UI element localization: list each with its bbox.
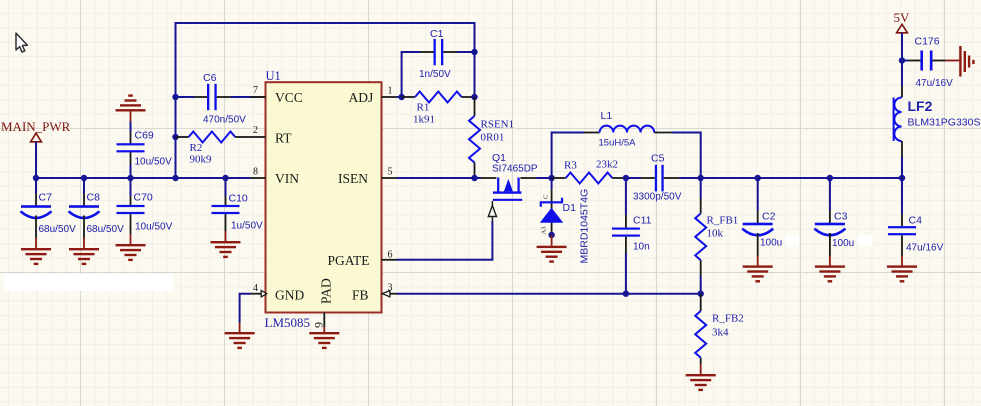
svg-text:R_FB1: R_FB1 xyxy=(707,215,739,227)
node C5 right output xyxy=(698,175,704,181)
pin 4 GND with input arrow xyxy=(251,293,266,295)
svg-text:1u/50V: 1u/50V xyxy=(231,221,263,232)
node D1 anode xyxy=(548,232,554,238)
wire top loop xyxy=(176,23,475,178)
capacitor C4 xyxy=(888,178,916,265)
svg-text:PAD: PAD xyxy=(319,278,334,304)
wire ISEN to Q1 xyxy=(397,177,481,179)
svg-text:D1: D1 xyxy=(563,202,577,214)
node C11 bottom xyxy=(623,291,629,297)
svg-text:100u: 100u xyxy=(760,238,782,249)
resistor RSEN1 xyxy=(469,97,480,178)
white strip lower left xyxy=(4,274,174,291)
svg-text:MBRD1045T4G: MBRD1045T4G xyxy=(579,189,591,264)
node 5V junction xyxy=(899,57,905,63)
svg-text:RT: RT xyxy=(275,131,292,146)
svg-text:1k91: 1k91 xyxy=(413,114,435,126)
svg-text:VCC: VCC xyxy=(275,90,303,105)
pin 5 ISEN xyxy=(382,177,398,179)
svg-text:Q1: Q1 xyxy=(492,152,506,164)
transistor Q1 SI7465DP xyxy=(481,178,536,222)
node C6 tap xyxy=(172,94,178,100)
wire VIN rail xyxy=(36,177,251,179)
svg-text:3300p/50V: 3300p/50V xyxy=(633,192,682,203)
resistor R2 xyxy=(176,132,251,143)
capacitor C70 xyxy=(117,178,145,244)
ground under C2 xyxy=(743,265,773,282)
ground above C69 (flipped) xyxy=(116,94,146,111)
svg-text:RSEN1: RSEN1 xyxy=(481,119,515,131)
inductor L1 xyxy=(552,126,701,178)
capacitor C1 xyxy=(402,39,475,97)
svg-text:10n: 10n xyxy=(633,242,650,253)
resistor R_FB1 xyxy=(695,178,706,294)
svg-text:23k2: 23k2 xyxy=(596,159,618,171)
ground at PAD pin xyxy=(323,327,325,332)
node FB divider xyxy=(698,291,704,297)
capacitor C3 xyxy=(814,178,845,265)
node C2 tap xyxy=(755,175,761,181)
inductor LF2 xyxy=(894,61,902,179)
svg-text:ADJ: ADJ xyxy=(349,90,374,105)
pin 6 PGATE xyxy=(382,259,398,261)
capacitor C5 xyxy=(626,165,701,192)
svg-text:C176: C176 xyxy=(915,36,940,48)
pin 2 RT xyxy=(251,136,266,138)
node R1 right xyxy=(471,94,477,100)
svg-text:10k: 10k xyxy=(707,228,724,240)
power port 5V xyxy=(897,24,908,33)
svg-text:3: 3 xyxy=(388,283,393,294)
svg-text:ISEN: ISEN xyxy=(338,171,368,186)
wire Q1 drain to node xyxy=(536,177,552,179)
node C4/LF2 tap xyxy=(899,175,905,181)
svg-text:6: 6 xyxy=(388,250,393,261)
white patch right of C2 value xyxy=(786,235,800,247)
svg-text:R1: R1 xyxy=(417,102,430,114)
ground under C3 xyxy=(815,265,845,282)
resistor R1 xyxy=(397,92,475,103)
svg-text:90k9: 90k9 xyxy=(190,154,213,166)
ground under C4 xyxy=(887,265,917,282)
pin 1 ADJ xyxy=(382,96,398,98)
svg-text:3k4: 3k4 xyxy=(712,327,729,339)
node switch node xyxy=(548,175,554,181)
svg-text:10u/50V: 10u/50V xyxy=(135,222,173,233)
svg-text:0R01: 0R01 xyxy=(481,132,505,144)
svg-text:R2: R2 xyxy=(190,142,203,154)
svg-text:C3: C3 xyxy=(834,211,848,223)
svg-text:470n/50V: 470n/50V xyxy=(203,115,246,126)
svg-text:4: 4 xyxy=(253,283,258,294)
wire GND pin to ground xyxy=(240,294,251,323)
node R2 tap xyxy=(172,134,178,140)
svg-text:1: 1 xyxy=(388,86,393,97)
svg-text:U1: U1 xyxy=(266,69,281,83)
svg-text:C8: C8 xyxy=(87,192,101,204)
svg-text:LF2: LF2 xyxy=(908,98,933,114)
node RSEN1 bottom xyxy=(471,175,477,181)
wire right vertical C1 to R1 xyxy=(474,52,476,97)
ground under C70 xyxy=(116,244,146,261)
node C3 tap xyxy=(827,175,833,181)
svg-text:5V: 5V xyxy=(894,10,911,25)
svg-text:47u/16V: 47u/16V xyxy=(906,243,944,254)
svg-text:C70: C70 xyxy=(134,192,153,204)
svg-text:C11: C11 xyxy=(633,215,652,227)
svg-text:100u: 100u xyxy=(832,238,854,249)
svg-text:FB: FB xyxy=(352,288,369,303)
svg-text:VIN: VIN xyxy=(275,171,299,186)
resistor R3 xyxy=(552,173,626,184)
mouse cursor xyxy=(16,33,27,52)
svg-text:C69: C69 xyxy=(135,130,154,142)
svg-text:R_FB2: R_FB2 xyxy=(712,313,744,325)
ground under C8 xyxy=(69,248,99,265)
svg-text:C10: C10 xyxy=(229,193,248,205)
svg-text:C6: C6 xyxy=(203,72,217,84)
node rail junctions xyxy=(33,175,229,181)
svg-text:R3: R3 xyxy=(564,160,577,172)
svg-text:BLM31PG330SN1: BLM31PG330SN1 xyxy=(908,117,981,129)
svg-text:MAIN_PWR: MAIN_PWR xyxy=(1,119,71,134)
capacitor C8 xyxy=(69,178,100,248)
svg-text:10u/50V: 10u/50V xyxy=(135,157,173,168)
svg-text:A3: A3 xyxy=(541,227,548,235)
capacitor C11 xyxy=(612,178,640,294)
svg-text:2: 2 xyxy=(253,125,258,136)
capacitor C176 xyxy=(902,51,946,71)
resistor R_FB2 xyxy=(695,294,706,374)
svg-text:C7: C7 xyxy=(39,192,53,204)
svg-text:C: C xyxy=(543,195,550,199)
pin 7 VCC xyxy=(251,96,266,98)
svg-text:15uH/5A: 15uH/5A xyxy=(599,138,637,149)
white patch right of C3 value xyxy=(858,235,873,246)
svg-text:C1: C1 xyxy=(430,28,444,40)
op-amp U1 body (LM5085 regulator) xyxy=(266,82,382,312)
svg-text:47u/16V: 47u/16V xyxy=(916,78,954,89)
svg-text:PGATE: PGATE xyxy=(328,253,370,268)
ground under C7 xyxy=(21,248,51,265)
svg-text:L1: L1 xyxy=(601,110,613,122)
svg-text:GND: GND xyxy=(275,288,304,303)
svg-text:C2: C2 xyxy=(762,211,776,223)
pin 3 FB with input arrow xyxy=(382,293,398,295)
diode D1 MBRD1045T4G xyxy=(540,178,563,235)
node R3/C5/C11 xyxy=(623,175,629,181)
svg-text:68u/50V: 68u/50V xyxy=(39,224,77,235)
pin 9 PAD xyxy=(323,313,325,328)
ground at GND pin xyxy=(225,332,255,349)
wire FB net xyxy=(397,293,701,295)
wire output rail xyxy=(701,177,902,179)
capacitor C10 xyxy=(212,178,240,241)
wire PGATE to Q1 gate xyxy=(397,221,492,260)
svg-text:7: 7 xyxy=(253,85,258,96)
ground under C10 xyxy=(211,241,241,258)
capacitor C2 xyxy=(742,178,773,265)
power ground right of C176 xyxy=(946,46,975,77)
ground under D1 xyxy=(551,235,553,246)
svg-text:LM5085: LM5085 xyxy=(265,315,311,330)
capacitor C6 xyxy=(176,84,266,110)
svg-text:8: 8 xyxy=(253,167,258,178)
svg-text:C4: C4 xyxy=(909,215,923,227)
svg-text:C5: C5 xyxy=(651,153,665,165)
power port MAIN_PWR xyxy=(31,133,42,142)
wire MAIN_PWR vertical xyxy=(35,142,37,178)
ground under R_FB2 xyxy=(686,374,716,391)
svg-text:5: 5 xyxy=(388,167,393,178)
node ADJ junction xyxy=(398,94,404,100)
node C1 right xyxy=(471,49,477,55)
svg-text:1n/50V: 1n/50V xyxy=(419,69,451,80)
svg-text:68u/50V: 68u/50V xyxy=(87,224,125,235)
pin 8 VIN xyxy=(251,177,266,179)
capacitor C69 xyxy=(117,112,145,179)
capacitor C7 xyxy=(21,178,52,248)
svg-text:SI7465DP: SI7465DP xyxy=(492,164,538,175)
wire 5V down xyxy=(901,33,903,61)
